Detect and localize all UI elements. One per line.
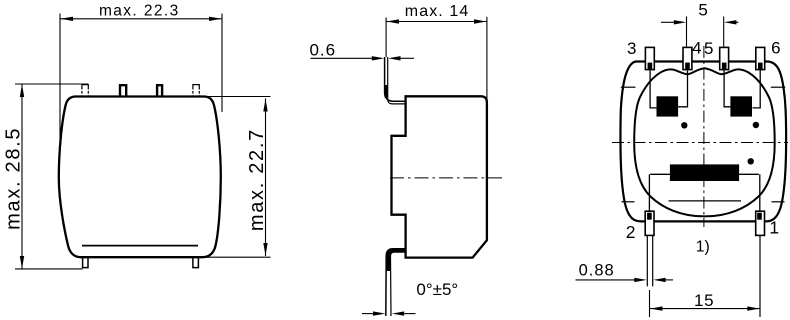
- bottom view: solder pad left: [657, 96, 679, 116]
- dimension max. 14 dimension line: [386, 21, 487, 23]
- pin 2: [645, 211, 654, 235]
- svg-text:6: 6: [771, 38, 780, 57]
- dimension max. 22.3 extension line left: [59, 14, 61, 151]
- dimension max. 14 extension line left: [385, 18, 387, 58]
- side view: top pin bend dark fill: [384, 85, 387, 98]
- bottom view: wire from pin 4: [678, 70, 688, 107]
- dimension max. 22.3 dimension line: [60, 18, 222, 20]
- svg-text:max. 14: max. 14: [405, 3, 470, 20]
- svg-text:1: 1: [769, 218, 779, 238]
- svg-text:3: 3: [627, 39, 636, 58]
- pin 6: [756, 47, 765, 69]
- svg-text:1): 1): [696, 238, 710, 255]
- dimension 0.88 line right with arrow: [666, 279, 673, 281]
- pin 1 lead wire: [759, 235, 761, 317]
- side view: bottom pin outer line: [386, 249, 406, 316]
- bottom view: corner line top-left: [621, 86, 636, 88]
- bottom view: wire to pin 2: [648, 174, 650, 211]
- svg-text:15: 15: [694, 291, 714, 310]
- svg-text:0°±5°: 0°±5°: [416, 280, 458, 299]
- dimension max. 22.7 arrowhead down: [263, 243, 267, 256]
- front view: top pin mid-left (thick): [120, 85, 126, 96]
- side view: top pin outer line: [385, 57, 406, 101]
- dimension max. 22.7 extension line bottom: [203, 256, 271, 258]
- pin 1: [756, 211, 765, 235]
- dimension 5 line left with arrow: [661, 21, 675, 23]
- front view: top pin mid-right (thick): [157, 85, 162, 96]
- dimension 15 arrowhead left: [650, 306, 662, 310]
- bottom view: coil body outline (scalloped blob): [634, 68, 775, 216]
- side view: body profile: [392, 96, 487, 257]
- pin 4: [683, 47, 692, 69]
- dimension 15 arrowhead right: [747, 306, 759, 310]
- dimension max. 22.3 arrowhead left: [61, 17, 74, 21]
- svg-text:5: 5: [698, 1, 707, 20]
- svg-text:4: 4: [692, 39, 701, 58]
- dimension 15 extension line left: [649, 290, 651, 317]
- angle dimension 0°±5° line right with arrow: [404, 313, 415, 315]
- dimension 15 dimension line: [650, 308, 760, 310]
- svg-text:max. 28.5: max. 28.5: [3, 127, 25, 230]
- side view: bottom pin dark fill: [388, 250, 404, 271]
- dimension 5 line right with arrow: [736, 21, 739, 23]
- dimension max. 22.7 extension line top: [205, 96, 271, 98]
- dimension max. 28.5 dimension line: [21, 84, 23, 269]
- dimension max. 28.5 arrowhead up: [20, 84, 24, 97]
- side view: bottom pin inner line: [391, 252, 406, 316]
- svg-text:2: 2: [626, 222, 636, 242]
- dimension 5 extension line left: [686, 17, 688, 47]
- bottom view: horizontal centerline: [612, 142, 788, 144]
- dimension max. 22.3 arrowhead right: [209, 17, 222, 21]
- bottom view: dot lower-right: [748, 158, 754, 164]
- bottom view: center black bar: [670, 164, 739, 181]
- bottom view: line under bar: [669, 200, 742, 202]
- dimension 0.88 line left with arrow: [576, 279, 635, 281]
- dimension max. 28.5 extension line bottom: [15, 268, 83, 270]
- svg-text:max. 22.7: max. 22.7: [246, 128, 268, 231]
- svg-text:5: 5: [704, 39, 713, 58]
- front view: top pin far-left (thin, dashed): [82, 85, 88, 90]
- bottom view: corner line top-right: [771, 86, 786, 88]
- svg-text:0.6: 0.6: [309, 40, 336, 59]
- bottom view: dot left: [681, 122, 687, 128]
- front view: bottom pin right: [193, 257, 199, 267]
- svg-text:0.88: 0.88: [579, 262, 615, 280]
- dimension max. 14 extension line right: [486, 17, 488, 103]
- dimension 5 extension line right: [723, 17, 725, 47]
- bottom view: wire to pin 1: [759, 174, 761, 211]
- bottom view: solder pad right: [730, 96, 752, 116]
- dimension max. 28.5 arrowhead down: [20, 256, 24, 269]
- bottom view: vertical centerline: [703, 46, 705, 227]
- dimension max. 22.7 arrowhead up: [263, 99, 267, 112]
- side view: top pin inner line: [388, 57, 406, 104]
- bottom view: body outline: [620, 62, 786, 222]
- bottom view: corner line bottom-right: [772, 201, 785, 203]
- angle dimension 0°±5° line left with arrow: [362, 313, 373, 315]
- pin 2 lead wires: [647, 235, 652, 286]
- dimension max. 22.7 dimension line: [265, 99, 267, 257]
- front view: inner bottom line: [82, 245, 198, 247]
- front view: bottom pin left: [83, 257, 88, 267]
- side view: horizontal centerline: [390, 177, 504, 179]
- dimension max. 22.3 extension line right: [221, 14, 223, 113]
- bottom view: dot right: [753, 122, 759, 128]
- bottom view: wire from pin 5: [724, 70, 730, 107]
- pin 5: [720, 47, 729, 69]
- svg-text:max. 22.3: max. 22.3: [99, 3, 180, 20]
- front view: component body outline: [59, 97, 221, 258]
- pin 3: [645, 47, 654, 69]
- bottom view: platform front line: [650, 173, 759, 175]
- dimension max. 14 arrowhead right: [474, 19, 486, 23]
- dimension max. 28.5 extension line top: [15, 83, 88, 85]
- dimension 0.6 line right with arrow: [401, 57, 415, 59]
- front view: top pin far-right (thin, dashed): [193, 85, 199, 90]
- bottom view: corner line bottom-left: [622, 201, 635, 203]
- dimension max. 14 arrowhead left: [387, 19, 399, 23]
- bottom view: wire from pin 6: [753, 70, 761, 108]
- dimension 0.6 line left with arrow: [311, 57, 373, 59]
- bottom view: wire from pin 3: [650, 70, 657, 108]
